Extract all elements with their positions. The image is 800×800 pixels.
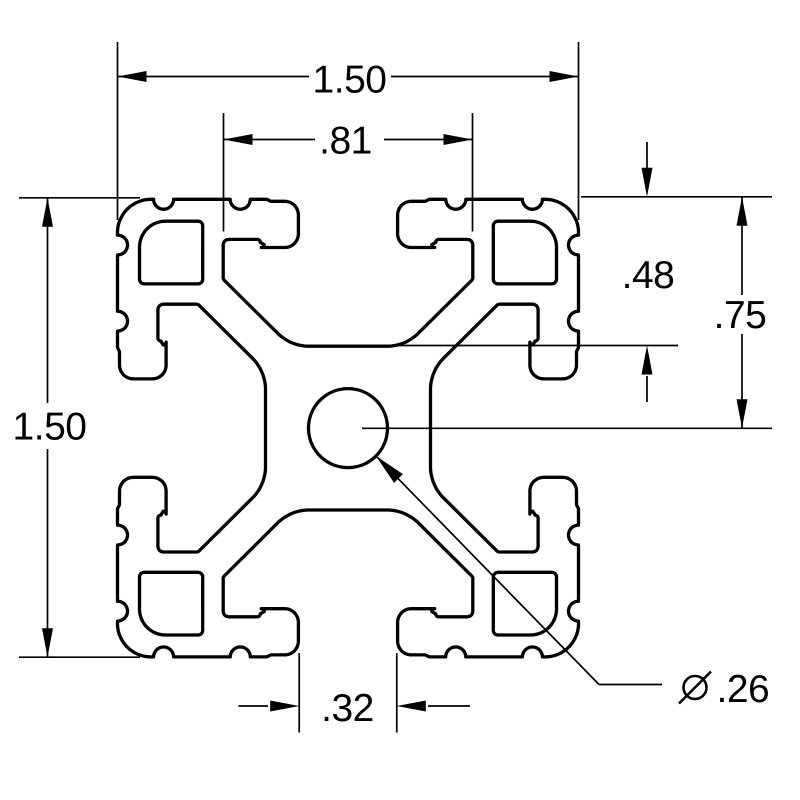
dim .32: extension lines bbox=[298, 653, 300, 733]
dim 1.50 top: arrowheads bbox=[118, 71, 147, 82]
leader arrowhead at bore bbox=[376, 456, 403, 483]
dim 1.50 left: extension lines bbox=[19, 197, 140, 199]
dim .48: upper arrow and tail bbox=[646, 142, 648, 168]
dim .81: dimension line bbox=[224, 139, 316, 141]
dim 1.50 left: dimension line bbox=[47, 198, 49, 403]
dim .32: right arrow and tail bbox=[397, 701, 426, 712]
svg-text:.75: .75 bbox=[714, 294, 767, 337]
dim 1.50 top: dimension line bbox=[118, 76, 310, 78]
dim .81: extension lines bbox=[223, 113, 225, 232]
dim .75: center reference line through bore bbox=[362, 427, 772, 429]
dim .48: slot floor extension line bbox=[389, 345, 678, 347]
dim .75: dimension line bbox=[741, 197, 743, 295]
top-right corner cavity bbox=[493, 221, 556, 284]
svg-text:1.50: 1.50 bbox=[13, 406, 87, 449]
svg-text:.26: .26 bbox=[717, 668, 770, 711]
svg-text:.32: .32 bbox=[321, 687, 374, 730]
bottom-right corner cavity bbox=[493, 572, 556, 635]
center bore hole bbox=[309, 389, 388, 468]
dim .48: lower arrow and tail bbox=[642, 346, 653, 375]
svg-text:.48: .48 bbox=[622, 254, 675, 297]
diameter symbol bbox=[684, 676, 707, 699]
svg-text:1.50: 1.50 bbox=[313, 59, 387, 102]
dim 1.50 left: arrowheads bbox=[42, 198, 53, 227]
bottom-left corner cavity bbox=[140, 572, 203, 635]
svg-text:.81: .81 bbox=[319, 120, 372, 163]
dim .32: left arrow and tail bbox=[239, 705, 269, 707]
extrusion outer profile contour bbox=[118, 199, 579, 657]
dim .75: extension line from top face bbox=[581, 196, 772, 198]
top-left corner cavity bbox=[140, 221, 203, 284]
dim .75: arrowheads bbox=[737, 197, 748, 226]
dim .81: arrowheads bbox=[224, 134, 253, 145]
dim 1.50 top: extension lines bbox=[117, 42, 119, 220]
leader line for bore diameter bbox=[378, 458, 600, 685]
